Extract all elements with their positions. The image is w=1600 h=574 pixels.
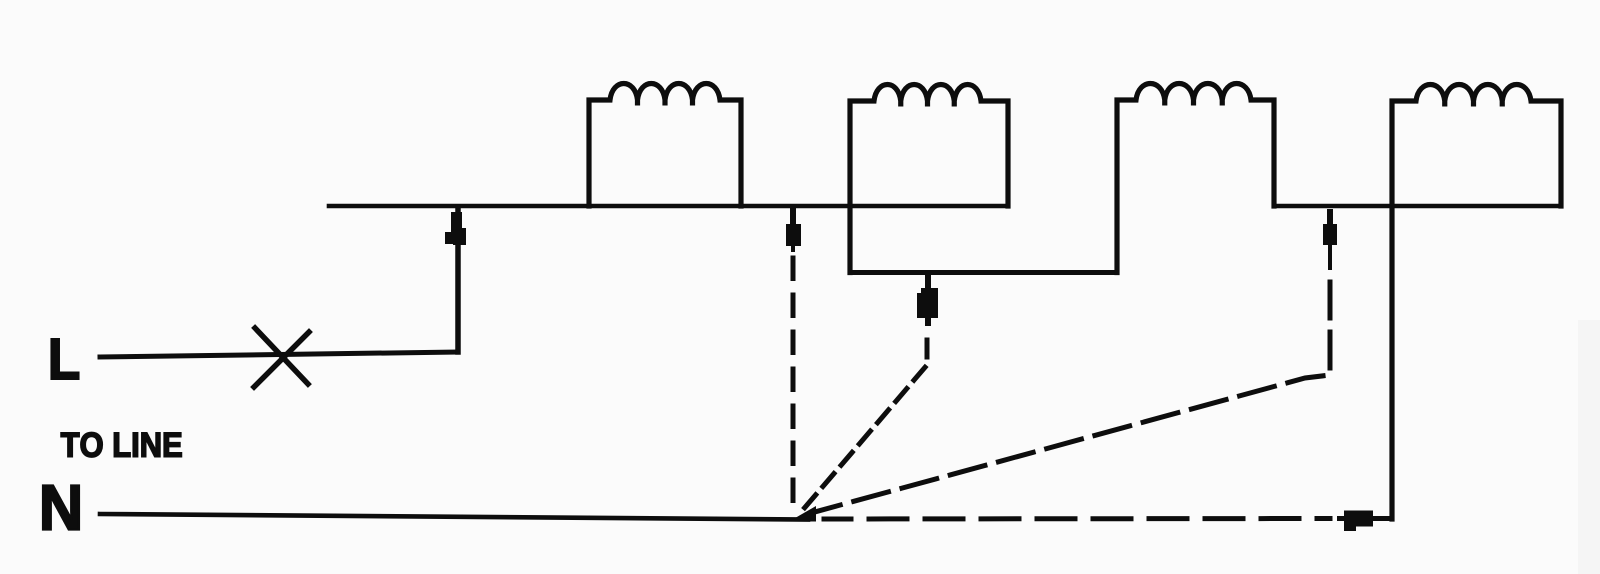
connector lug on riser (below bus at x=458) — [445, 212, 466, 245]
net label N — [43, 485, 79, 529]
dashed tap wire 3 (from connector under bus at x=1330 to N junction) — [811, 282, 1330, 513]
wire: N line dashed segment — [824, 516, 1330, 522]
wire: N line right solid stub to L4 leg — [1372, 516, 1392, 521]
inductor L3 (raised coil) — [1117, 84, 1274, 273]
junction arrowhead at N line tap point — [789, 506, 816, 522]
wire: L input line — [100, 352, 457, 357]
connector lug under bus at x=793 — [786, 208, 801, 252]
wire: N line solid segment — [100, 514, 808, 520]
wire: top bus left segment (L1 feed) — [329, 204, 1008, 209]
inductor L2 (box coil) — [850, 85, 1008, 273]
label TO LINE — [61, 432, 182, 457]
faint scan artifact right edge — [1578, 320, 1600, 574]
wire: riser from L line to bus — [455, 207, 461, 352]
dashed tap wire 2 (from connector under L2 box bottom to N junction) — [801, 340, 927, 512]
connector lug on N line at x=1358 (horizontal) — [1337, 511, 1373, 532]
switch X (line cross) stroke 2 — [254, 332, 309, 387]
inductor L4 (box coil) — [1392, 85, 1561, 520]
net label L — [51, 339, 78, 379]
inductor L1 (raised coil) — [589, 84, 741, 207]
switch X (line cross) stroke 1 — [255, 328, 308, 384]
connector lug under bus at x=1330 — [1323, 209, 1337, 270]
wire: top bus right segment — [1274, 204, 1561, 209]
wire: L2 box bottom — [850, 270, 1117, 275]
connector lug under L2 box bottom at x=928 — [917, 274, 938, 326]
dashed tap wire 1 (from connector under bus at x=793 to N junction) — [791, 258, 796, 504]
